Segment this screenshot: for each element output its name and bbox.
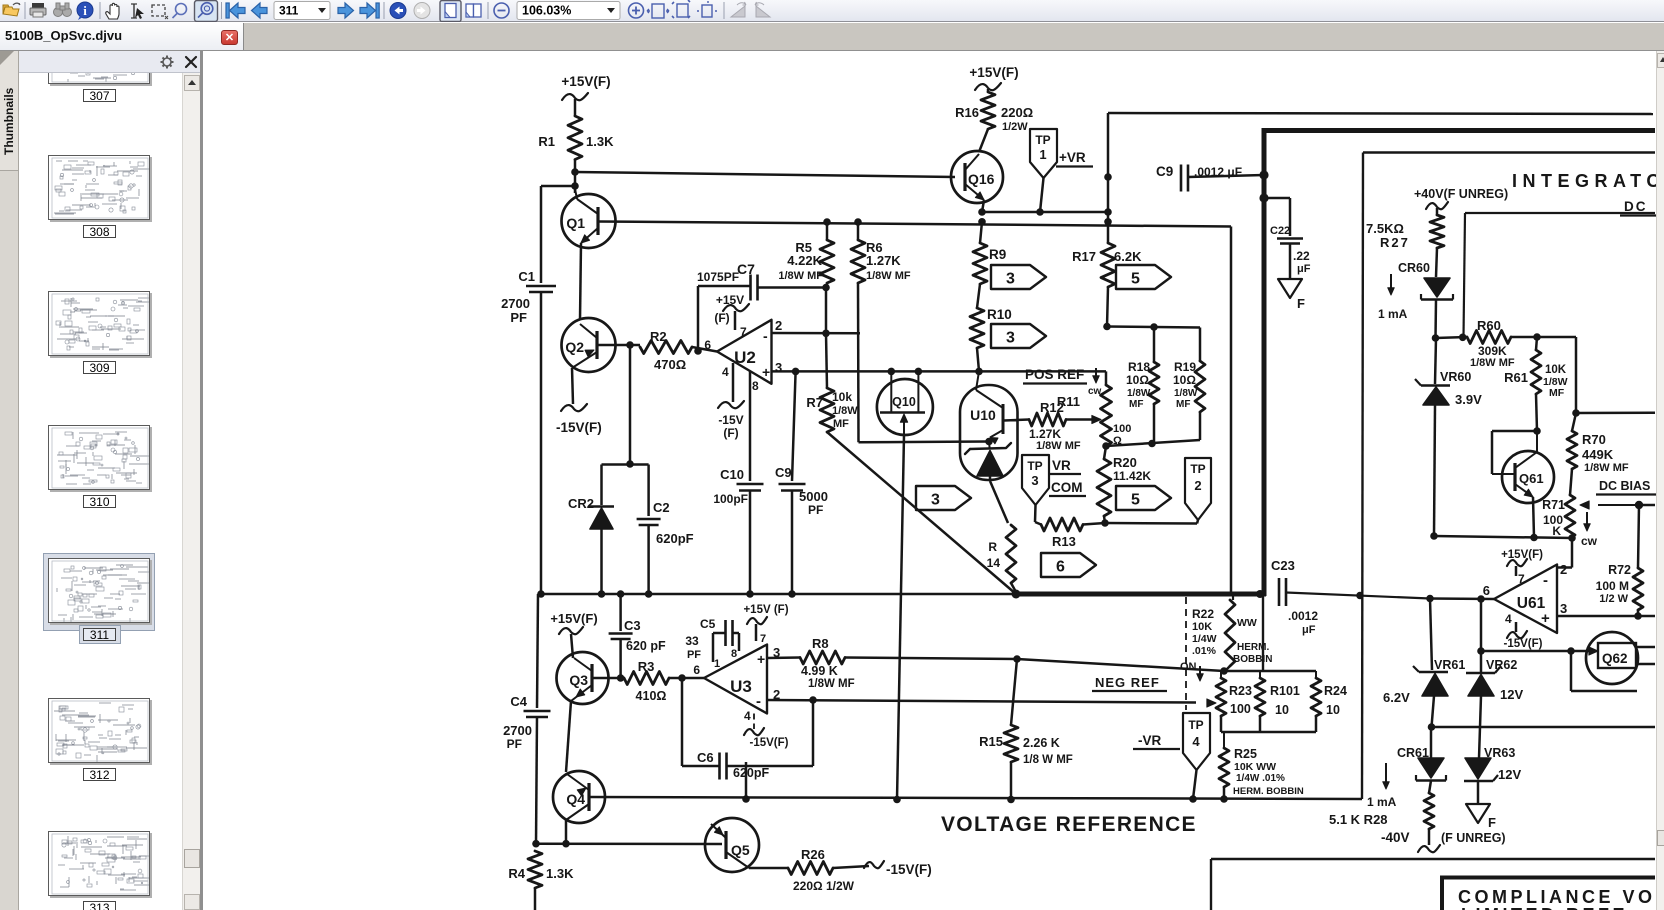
transistor Q1: [562, 194, 616, 248]
svg-text:R10: R10: [987, 307, 1012, 322]
wire R17 bottom: [1107, 287, 1108, 327]
svg-text:1/8W: 1/8W: [832, 405, 858, 417]
svg-text:R25: R25: [1234, 747, 1257, 761]
wire Q5 emitter to R26: [749, 867, 788, 870]
resistor R72: [1633, 568, 1643, 610]
svg-text:1: 1: [714, 658, 720, 670]
svg-text:4.22K: 4.22K: [787, 253, 822, 268]
svg-text:2.26 K: 2.26 K: [1023, 736, 1060, 750]
wire Q62 input: [1481, 650, 1594, 653]
svg-text:C2: C2: [653, 500, 670, 515]
svg-text:COMPLIANCE VOL: COMPLIANCE VOL: [1458, 887, 1656, 907]
svg-text:3: 3: [1560, 601, 1567, 616]
node R8 R15: [1013, 655, 1021, 663]
testpoint TP3: [1022, 455, 1049, 505]
svg-text:R4: R4: [508, 866, 525, 881]
svg-text:1/8W: 1/8W: [1174, 388, 1198, 399]
svg-text:C23: C23: [1271, 558, 1295, 573]
svg-text:6: 6: [1483, 583, 1490, 598]
wire U61 pin6 line: [1430, 597, 1494, 600]
wire C7 to U2 input: [697, 286, 700, 351]
power -15V(F) R26: [833, 866, 869, 868]
svg-text:VOLTAGE REFERENCE: VOLTAGE REFERENCE: [941, 813, 1197, 836]
svg-text:μF: μF: [1297, 263, 1311, 275]
node Q61 emitter: [1530, 534, 1538, 542]
svg-text:PF: PF: [510, 310, 527, 325]
port 6: [1041, 553, 1096, 577]
resistor R24: [1315, 671, 1317, 678]
svg-text:Q4: Q4: [566, 791, 585, 807]
svg-text:4.99 K: 4.99 K: [801, 664, 838, 678]
wire Q3 emitter to Q4: [566, 701, 571, 772]
testpoint TP4: [1183, 713, 1210, 770]
resistor R20: [1104, 446, 1106, 459]
wire NEG REF feed: [1017, 659, 1224, 671]
node wiper riser: [1635, 501, 1643, 509]
svg-text:COM: COM: [1051, 480, 1083, 495]
svg-text:R71: R71: [1542, 498, 1565, 512]
resistor R8: [800, 651, 845, 664]
wire corner down to return bus: [1230, 227, 1233, 593]
node R18 bottom: [1148, 440, 1156, 448]
svg-text:5000: 5000: [799, 489, 828, 504]
power -15V(F) label Q2: [561, 404, 587, 411]
wire Q62 pins right: [1636, 646, 1655, 649]
wire Q2 base: [597, 344, 640, 347]
svg-text:1/2 W: 1/2 W: [1599, 593, 1628, 605]
node Q16 emitter: [978, 208, 986, 216]
wire bus y222 Q1 base to right corner: [598, 222, 1231, 227]
svg-text:+15V(F): +15V(F): [561, 74, 610, 89]
node U10 zener top: [985, 438, 993, 446]
node TP4 bottom: [1189, 795, 1197, 803]
op-amp U61: [1494, 565, 1557, 634]
wire U2 pin2 line: [772, 332, 861, 335]
svg-text:+15V(F): +15V(F): [550, 611, 597, 626]
svg-text:R101: R101: [1270, 684, 1300, 698]
svg-text:1/8W MF: 1/8W MF: [1036, 440, 1081, 452]
resistor R61: [1536, 337, 1537, 350]
svg-text:F: F: [1488, 815, 1496, 830]
svg-text:R18: R18: [1128, 360, 1150, 374]
wire R7 diagonal to main junction: [827, 432, 1016, 594]
toolbar: [0, 0, 1664, 22]
svg-text:Q1: Q1: [566, 215, 585, 231]
wire VR62 to VR63: [1479, 696, 1481, 758]
node bus R6: [854, 218, 862, 226]
wire Q62 lower loop: [1570, 651, 1573, 691]
svg-text:-15V(F): -15V(F): [886, 862, 932, 877]
resistor R9: [978, 218, 986, 226]
node bus C1: [537, 590, 545, 598]
svg-text:3.9V: 3.9V: [1455, 392, 1482, 407]
svg-text:10: 10: [1275, 703, 1289, 717]
resistor R4: [528, 851, 542, 888]
svg-text:1.3K: 1.3K: [546, 866, 574, 881]
svg-text:1 mA: 1 mA: [1378, 307, 1408, 321]
svg-text:7: 7: [760, 633, 766, 645]
wire y537 row: [1434, 536, 1572, 538]
svg-text:10Ω: 10Ω: [1173, 373, 1196, 387]
wire R12 wiper arrow: [1066, 418, 1092, 421]
svg-text:PF: PF: [808, 503, 823, 517]
wire +15V to R1: [562, 93, 588, 100]
port 3 upper: [991, 265, 1046, 289]
svg-text:R17: R17: [1072, 249, 1096, 264]
svg-text:R72: R72: [1608, 563, 1631, 577]
resistor R70: [1572, 413, 1576, 431]
resistor R15: [1011, 659, 1017, 725]
svg-text:10: 10: [1326, 703, 1340, 717]
node x1108 y177: [1104, 173, 1112, 181]
svg-text:i: i: [83, 3, 87, 18]
svg-text:C6: C6: [697, 750, 714, 765]
svg-text:1/8W MF: 1/8W MF: [778, 270, 823, 282]
svg-text:100: 100: [1113, 423, 1131, 435]
transistor Q10: [877, 379, 933, 435]
svg-text:620pF: 620pF: [733, 766, 769, 780]
node R11 bottom: [1102, 442, 1110, 450]
svg-text:10K: 10K: [1545, 364, 1567, 376]
svg-text:-: -: [756, 693, 761, 710]
svg-text:10K WW: 10K WW: [1234, 761, 1276, 773]
wire thick riser: [1262, 128, 1267, 596]
svg-text:1/2W: 1/2W: [1002, 121, 1028, 133]
node y798 Q10: [893, 796, 901, 804]
svg-text:100 M: 100 M: [1596, 579, 1629, 593]
wire R18 R19 bottoms: [1106, 440, 1200, 446]
wire U61 pin3 line: [1557, 615, 1655, 618]
resistor R6: [857, 222, 860, 240]
svg-text:1/8W: 1/8W: [1127, 388, 1151, 399]
svg-text:LIMITED REFE: LIMITED REFE: [1461, 905, 1628, 910]
sidebar scrollbar: [182, 73, 200, 910]
wire R27 to CR60: [1436, 248, 1437, 277]
capacitor C2: [637, 518, 661, 521]
svg-text:309K: 309K: [1478, 344, 1507, 358]
svg-text:6: 6: [704, 338, 711, 352]
node thick C9: [1259, 170, 1268, 179]
box compliance outer: [1211, 858, 1655, 860]
tab bar: [0, 23, 1664, 50]
wire corner to R70: [1537, 336, 1576, 339]
svg-text:R13: R13: [1052, 534, 1076, 549]
svg-text:R60: R60: [1477, 318, 1501, 333]
wire Q4 emitter: [565, 820, 568, 844]
node bus R5: [823, 218, 831, 226]
node R18 top: [1150, 323, 1158, 331]
svg-text:5: 5: [1131, 492, 1140, 509]
node C4 R4: [532, 840, 540, 848]
power +15V(F) U2 pin7: [734, 311, 737, 330]
svg-text:MF: MF: [1549, 387, 1565, 399]
svg-text:MF: MF: [1176, 399, 1190, 410]
svg-text:R3: R3: [638, 659, 655, 674]
wire Q4 base rail y798: [589, 797, 1362, 799]
svg-text:220Ω 1/2W: 220Ω 1/2W: [793, 879, 855, 893]
svg-text:-15V(F): -15V(F): [750, 737, 789, 749]
wire U10 bottom: [989, 476, 992, 481]
node bus C2: [645, 590, 653, 598]
svg-text:R2: R2: [650, 329, 667, 344]
node TP1 stem: [1036, 208, 1044, 216]
svg-text:R1: R1: [538, 134, 555, 149]
wire CR2/C2 loop top: [602, 463, 649, 466]
arrow cw R71: [1586, 512, 1588, 527]
wire C6 drop: [681, 678, 684, 766]
svg-text:R23: R23: [1229, 684, 1252, 698]
svg-text:100pF: 100pF: [713, 492, 748, 506]
node pin3 Q10a: [888, 368, 896, 376]
svg-text:620pF: 620pF: [656, 531, 694, 546]
wire R2 to U2 input: [692, 347, 717, 352]
node c23 line: [1356, 592, 1364, 600]
svg-text:1: 1: [1039, 147, 1046, 162]
svg-text:620 pF: 620 pF: [626, 639, 666, 653]
arrow wiper R23: [1207, 699, 1216, 707]
svg-text:3: 3: [931, 492, 940, 509]
node y536 left: [1430, 532, 1438, 540]
svg-text:12V: 12V: [1500, 687, 1523, 702]
power +15V(F) U61: [1515, 566, 1518, 576]
resistor R16: [981, 92, 995, 129]
node y727: [1428, 723, 1436, 731]
node bus C3: [617, 590, 625, 598]
node bus thick corner: [1256, 590, 1264, 598]
node U2 input: [694, 347, 702, 355]
wire Q61 base loop: [1492, 430, 1537, 433]
wire VR63 to F: [1477, 781, 1480, 804]
svg-text:3: 3: [1006, 330, 1015, 347]
svg-text:U10: U10: [970, 407, 996, 423]
svg-text:2: 2: [1194, 478, 1201, 493]
svg-text:VR: VR: [1052, 458, 1071, 473]
svg-text:-VR: -VR: [1138, 733, 1162, 748]
potentiometer R71: [1570, 469, 1572, 495]
svg-text:7.5KΩ: 7.5KΩ: [1366, 221, 1404, 236]
svg-text:R26: R26: [801, 847, 825, 862]
dashed link TP: [1185, 597, 1187, 710]
wire R19 drop: [1199, 328, 1202, 362]
resistor R23 pot: [1220, 671, 1222, 678]
svg-text:2700: 2700: [501, 296, 530, 311]
wire y327 to R18 R19: [1107, 327, 1200, 328]
svg-text:TP: TP: [1190, 462, 1205, 476]
wire y727 row: [1432, 726, 1656, 729]
svg-text:HERM.: HERM.: [1237, 642, 1269, 653]
svg-text:2: 2: [775, 318, 782, 333]
wire Q16 emitter: [982, 200, 984, 212]
wire R60 to R61 node: [1511, 336, 1537, 339]
svg-text:4: 4: [1192, 734, 1200, 749]
wire R3 to U3: [669, 677, 704, 680]
port 5 upper: [1116, 265, 1171, 289]
resistor R101: [1259, 671, 1261, 678]
svg-text:-: -: [763, 328, 768, 344]
svg-text:.01%: .01%: [1192, 645, 1217, 657]
svg-text:C10: C10: [720, 467, 744, 482]
svg-text:(F): (F): [723, 426, 738, 440]
node y798 x746: [742, 795, 750, 803]
wire R1 to Q1: [574, 160, 577, 194]
svg-text:8: 8: [752, 379, 759, 393]
svg-text:2700: 2700: [503, 723, 532, 738]
svg-text:449K: 449K: [1582, 447, 1614, 462]
node pin3 R72: [1634, 612, 1642, 620]
transistor Q2: [562, 318, 616, 372]
resistor R3: [624, 672, 669, 685]
wire R23 bottom row: [1220, 716, 1223, 732]
svg-text:410Ω: 410Ω: [636, 689, 667, 703]
svg-text:R61: R61: [1504, 370, 1528, 385]
resistor R10: [977, 284, 980, 308]
node R5 bottom / C7: [826, 283, 829, 288]
wire to C1: [541, 185, 575, 188]
svg-text:1/8W MF: 1/8W MF: [808, 678, 855, 690]
wire y413 right: [1576, 411, 1655, 414]
capacitor C7: [758, 286, 828, 289]
resistor R28: [1429, 781, 1431, 794]
svg-text:C22: C22: [1270, 225, 1290, 237]
resistor R26: [788, 862, 833, 875]
thumbnails panel: [19, 73, 182, 910]
svg-text:MF: MF: [833, 418, 849, 430]
svg-text:7: 7: [1518, 572, 1525, 586]
svg-text:10Ω: 10Ω: [1126, 373, 1149, 387]
svg-text:PF: PF: [507, 737, 522, 751]
capacitor C8: [792, 371, 796, 481]
node Q2 base branch: [626, 341, 634, 349]
svg-text:-: -: [1543, 572, 1548, 589]
wire U10 pin to R12: [1004, 420, 1029, 421]
svg-text:1/4W .01%: 1/4W .01%: [1236, 773, 1285, 784]
potentiometer R11: [1105, 371, 1108, 385]
wire Q10 down: [897, 435, 904, 800]
wire R6 down: [857, 283, 860, 442]
op-amp U3: [704, 645, 767, 714]
svg-text:Ω: Ω: [1113, 435, 1122, 447]
wire Q2 base branch down: [629, 345, 632, 464]
wire Q61 emitter: [1533, 497, 1534, 538]
svg-text:+: +: [1541, 610, 1550, 627]
node pin2 R5R7: [822, 330, 830, 338]
svg-text:7: 7: [740, 325, 747, 339]
svg-text:PF: PF: [687, 649, 701, 661]
svg-text:R27: R27: [1380, 235, 1410, 250]
box integrator top: [1363, 151, 1655, 153]
wire return bus thin: [541, 593, 1016, 596]
capacitor C4: [537, 594, 538, 708]
resistor R60: [1467, 331, 1511, 344]
wire y442 to U10: [859, 440, 989, 443]
svg-text:-15V(F): -15V(F): [1504, 638, 1543, 650]
tube U10: [960, 385, 1018, 480]
resistor R13: [1035, 522, 1041, 525]
svg-text:R20: R20: [1113, 455, 1137, 470]
svg-text:1075PF: 1075PF: [697, 270, 739, 284]
testpoint TP1: [1030, 129, 1057, 178]
resistor R18: [1153, 327, 1156, 362]
svg-text:3: 3: [775, 360, 782, 375]
resistor R19: [1195, 361, 1205, 412]
svg-text:POS REF: POS REF: [1025, 367, 1084, 382]
node pin6 VR62: [1477, 595, 1485, 603]
svg-text:+40V(F UNREG): +40V(F UNREG): [1414, 187, 1508, 201]
wire thick top bus: [1262, 128, 1655, 133]
wire Q2 emitter to -15V: [572, 368, 573, 404]
wire U61 pin2 up: [1557, 566, 1572, 569]
node pin2 C6: [809, 696, 817, 704]
svg-text:.22: .22: [1293, 249, 1310, 263]
svg-text:Q2: Q2: [565, 339, 584, 355]
capacitor C10: [749, 371, 752, 481]
wire VR62 riser: [1480, 599, 1483, 673]
wire wiper down: [1638, 505, 1639, 568]
node pin6 VR61: [1426, 595, 1434, 603]
wire vertical x1108: [1107, 113, 1110, 243]
svg-text:4: 4: [1505, 612, 1512, 626]
ground flag F VR63: [1466, 804, 1490, 823]
box dc bias inner: [1465, 212, 1655, 214]
wire CR60 to node: [1434, 300, 1437, 339]
node bus CR2: [598, 590, 606, 598]
wire +15V to R16: [987, 89, 990, 92]
svg-text:33: 33: [685, 634, 699, 648]
svg-text:DC BIAS: DC BIAS: [1599, 479, 1650, 493]
svg-text:14: 14: [987, 556, 1001, 570]
port 3 lower: [991, 324, 1046, 348]
arrow cw R11: [1095, 368, 1097, 381]
svg-text:U2: U2: [734, 348, 756, 367]
svg-text:1.27K: 1.27K: [1029, 427, 1061, 441]
svg-text:TP: TP: [1027, 459, 1042, 473]
svg-text:100: 100: [1230, 702, 1251, 716]
svg-text:C5: C5: [700, 617, 716, 631]
node R3 out: [678, 674, 686, 682]
node R1 bottom: [571, 168, 579, 176]
svg-text:VR60: VR60: [1440, 370, 1471, 384]
svg-text:5.1 K R28: 5.1 K R28: [1329, 812, 1388, 827]
svg-text:1 mA: 1 mA: [1367, 795, 1397, 809]
power -40V(F UNREG): [1428, 829, 1431, 845]
svg-text:+: +: [757, 651, 765, 667]
wire VR61 to node727: [1432, 696, 1435, 727]
svg-text:1.3K: 1.3K: [586, 134, 614, 149]
wire R23 top row: [1224, 670, 1316, 673]
resistor R14: [1006, 525, 1016, 583]
svg-text:6: 6: [1056, 559, 1065, 576]
node Q62 input: [1567, 647, 1575, 655]
svg-text:4: 4: [722, 365, 729, 379]
node pin3 R10: [975, 368, 983, 376]
power -15V(F) U2 pin4: [732, 363, 735, 402]
svg-text:R22: R22: [1192, 607, 1214, 621]
node VR62 Q62 branch: [1477, 647, 1485, 655]
svg-text:WW: WW: [1237, 617, 1257, 629]
transistor Q3: [557, 652, 609, 704]
svg-text:2: 2: [1560, 562, 1567, 577]
box integrator left: [1362, 153, 1363, 800]
svg-text:cw: cw: [1581, 534, 1598, 548]
port 3 mid: [916, 486, 971, 510]
svg-text:R12: R12: [1040, 400, 1064, 415]
svg-text:Q5: Q5: [731, 842, 750, 858]
svg-text:(F UNREG): (F UNREG): [1441, 831, 1506, 845]
svg-text:C9: C9: [775, 465, 792, 480]
wire U3 pin2 line: [767, 700, 1196, 703]
svg-text:11.42K: 11.42K: [1113, 469, 1151, 483]
svg-text:VR61: VR61: [1434, 658, 1465, 672]
